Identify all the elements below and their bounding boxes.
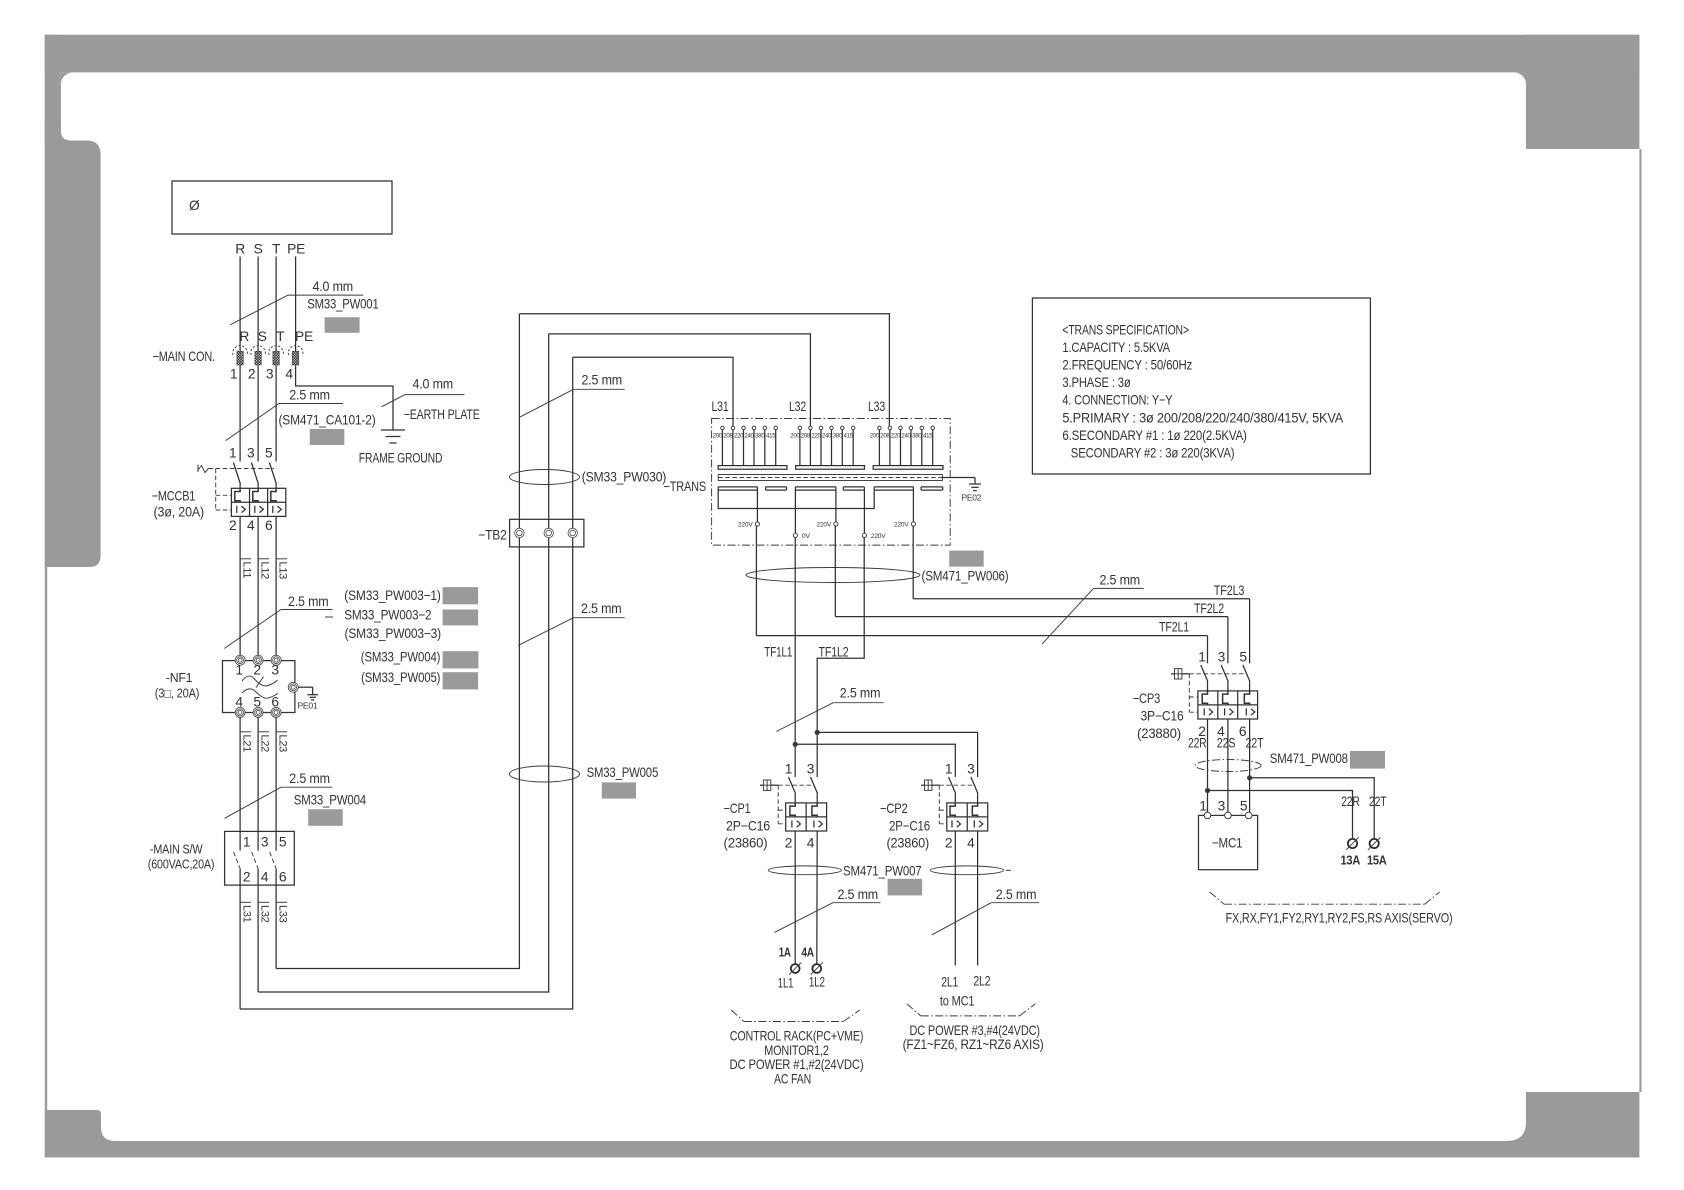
svg-text:1: 1 <box>1199 799 1206 814</box>
svg-text:3.PHASE : 3ø: 3.PHASE : 3ø <box>1062 375 1131 390</box>
svg-text:(SM471_PW006): (SM471_PW006) <box>922 569 1009 584</box>
svg-text:1A: 1A <box>779 946 791 960</box>
redaction SM471_CA101-2 <box>310 429 345 445</box>
secondary tap 220V no2 <box>817 490 839 528</box>
svg-text:5: 5 <box>279 834 287 849</box>
terminal 1L2 <box>809 962 825 989</box>
node PE <box>287 242 305 257</box>
svg-text:1L1: 1L1 <box>778 976 794 991</box>
svg-text:3: 3 <box>967 762 975 777</box>
svg-text:1: 1 <box>229 446 236 461</box>
svg-text:TF1L1: TF1L1 <box>764 645 792 660</box>
svg-text:<TRANS SPECIFICATION>: <TRANS SPECIFICATION> <box>1062 323 1189 338</box>
node L32 tap <box>549 334 811 426</box>
label 22T right <box>1369 794 1387 809</box>
svg-text:4: 4 <box>285 367 293 382</box>
wire CP3 out 1 <box>1207 719 1209 812</box>
svg-text:220V: 220V <box>738 521 753 528</box>
secondary winding 3b <box>921 487 943 490</box>
wire S to MCCB1 <box>257 366 259 462</box>
cable marker CP2 out <box>930 866 1011 875</box>
svg-text:(23860): (23860) <box>724 836 768 851</box>
wire L11 <box>240 517 252 660</box>
label to MC1 <box>940 994 975 1009</box>
svg-text:(SM33_PW005): (SM33_PW005) <box>361 670 440 685</box>
svg-text:220: 220 <box>891 433 901 440</box>
label SM33_PW004 <box>294 793 367 808</box>
trans specification box <box>1032 298 1370 474</box>
svg-text:−MC1: −MC1 <box>1212 836 1243 851</box>
wire CP3 out 2 <box>1227 719 1229 812</box>
svg-text:(SM33_PW030): (SM33_PW030) <box>582 470 667 485</box>
cable marker SM33_PW005 <box>510 765 659 782</box>
svg-text:−MCCB1: −MCCB1 <box>152 489 196 504</box>
redaction PW003-1 <box>443 587 479 604</box>
svg-text:1: 1 <box>1198 649 1205 664</box>
wire CP3 out 3 <box>1249 719 1251 812</box>
svg-text:CONTROL RACK(PC+VME): CONTROL RACK(PC+VME) <box>730 1029 864 1044</box>
svg-text:6: 6 <box>279 869 287 884</box>
label 22R right <box>1341 794 1360 809</box>
bracket control rack <box>731 1010 860 1022</box>
svg-text:220V: 220V <box>871 533 886 540</box>
labels SM33_PW003 group <box>325 588 441 685</box>
wire TF2L3 vertical <box>912 526 914 599</box>
svg-text:L23: L23 <box>276 735 288 753</box>
secondary winding 2a <box>795 487 836 490</box>
svg-text:4.0 mm: 4.0 mm <box>413 377 454 392</box>
svg-text:(SM33_PW003−3): (SM33_PW003−3) <box>345 626 442 641</box>
svg-text:3: 3 <box>1218 649 1226 664</box>
leader 2.5 mm CP1 out <box>774 887 880 932</box>
text servo axis <box>1226 911 1453 926</box>
svg-text:−TRANS: −TRANS <box>664 479 707 494</box>
svg-text:L12: L12 <box>258 562 270 580</box>
svg-text:TF2L3: TF2L3 <box>1214 583 1245 598</box>
svg-text:1: 1 <box>243 834 250 849</box>
svg-text:FX,RX,FY1,FY2,RY1,RY2,FS,RS AX: FX,RX,FY1,FY2,RY1,RY2,FS,RS AXIS(SERVO) <box>1226 911 1453 926</box>
breaker -MCCB1 <box>152 446 286 534</box>
svg-text:3: 3 <box>261 834 269 849</box>
primary winding 2 <box>790 426 864 469</box>
wire TF2L2 vertical <box>834 526 836 617</box>
svg-text:4. CONNECTION: Y−Y: 4. CONNECTION: Y−Y <box>1062 393 1172 408</box>
svg-text:4: 4 <box>261 869 269 884</box>
svg-text:to MC1: to MC1 <box>940 994 975 1009</box>
wire L31 <box>240 885 252 1009</box>
leader 2.5 mm below TB2 <box>518 601 625 645</box>
net TF2L2 <box>835 601 1228 617</box>
svg-text:6.SECONDARY #1 : 1ø 220(2.5KVA: 6.SECONDARY #1 : 1ø 220(2.5KVA) <box>1062 428 1246 443</box>
svg-text:22T: 22T <box>1369 794 1387 809</box>
wire CP1 out 1 <box>794 831 796 964</box>
svg-text:2.5 mm: 2.5 mm <box>838 887 879 902</box>
svg-text:1: 1 <box>230 367 237 382</box>
node R <box>235 242 245 257</box>
svg-text:−CP1: −CP1 <box>724 801 751 816</box>
svg-text:AC FAN: AC FAN <box>774 1071 811 1086</box>
svg-text:415: 415 <box>766 433 776 440</box>
svg-text:SM33_PW003−2: SM33_PW003−2 <box>344 607 431 622</box>
svg-text:−CP3: −CP3 <box>1133 691 1161 706</box>
junction 22R branch <box>1205 788 1353 839</box>
svg-text:1: 1 <box>945 762 952 777</box>
svg-text:(SM33_PW003−1): (SM33_PW003−1) <box>344 588 440 603</box>
svg-text:SM33_PW001: SM33_PW001 <box>307 297 378 312</box>
svg-text:TF1L2: TF1L2 <box>819 645 849 660</box>
wire CP2 out 2 <box>977 831 979 965</box>
secondary tap 220V no1 <box>738 490 760 528</box>
svg-text:(FZ1~FZ6, RZ1~RZ6 AXIS): (FZ1~FZ6, RZ1~RZ6 AXIS) <box>903 1037 1044 1052</box>
svg-text:0V: 0V <box>802 533 811 540</box>
redaction PW005 <box>443 672 479 689</box>
secondary tap 220V no3 <box>862 490 886 540</box>
svg-text:240: 240 <box>901 433 911 440</box>
svg-text:6: 6 <box>265 518 273 533</box>
wire R to MCCB1 <box>239 366 241 462</box>
terminal PE01 <box>288 682 318 710</box>
svg-text:3P−C16: 3P−C16 <box>1141 709 1184 724</box>
wire CP1 out 2 <box>816 831 818 964</box>
svg-text:208: 208 <box>723 433 733 440</box>
wire run L31 to riser <box>240 357 573 1009</box>
leader 2.5 mm TF2 lines <box>1042 573 1144 644</box>
bracket dc power 34 <box>907 1004 1036 1016</box>
svg-text:4.0 mm: 4.0 mm <box>313 279 354 294</box>
svg-text:2.5 mm: 2.5 mm <box>840 686 881 701</box>
svg-text:5: 5 <box>1240 799 1248 814</box>
svg-text:(3ø, 20A): (3ø, 20A) <box>154 505 205 520</box>
svg-text:2L2: 2L2 <box>973 974 990 989</box>
terminal block -TB2 <box>478 519 584 547</box>
secondary link wire <box>718 490 874 508</box>
wire TF2L2 to CP3 <box>1227 617 1229 664</box>
label 22S <box>1217 736 1236 751</box>
svg-text:4: 4 <box>967 836 975 851</box>
connector -MAIN CON. <box>153 329 314 382</box>
svg-text:(23860): (23860) <box>887 836 930 851</box>
wire R drop <box>239 257 241 347</box>
secondary winding 1b <box>766 487 787 490</box>
svg-text:R: R <box>239 329 249 344</box>
terminal 13A <box>1341 837 1361 867</box>
breaker -CP1 <box>724 762 827 851</box>
svg-text:2.5 mm: 2.5 mm <box>581 601 622 616</box>
wire L23 <box>276 717 288 831</box>
svg-text:L32: L32 <box>789 399 806 414</box>
svg-text:SECONDARY #2 : 3ø 220(3KVA): SECONDARY #2 : 3ø 220(3KVA) <box>1071 445 1235 460</box>
wire T to MCCB1 <box>275 366 277 462</box>
svg-text:380: 380 <box>755 433 765 440</box>
leader 2.5 mm CP2 out <box>932 887 1039 935</box>
svg-text:T: T <box>276 329 285 344</box>
svg-text:22R: 22R <box>1188 736 1207 751</box>
svg-text:2.5 mm: 2.5 mm <box>289 388 330 403</box>
redaction SM471_PW008 <box>1350 751 1385 769</box>
ground FRAME GROUND <box>359 430 443 466</box>
text control rack <box>730 1029 864 1087</box>
title box <box>172 181 392 234</box>
junction TF1L2 branch <box>815 730 978 777</box>
svg-text:PE01: PE01 <box>298 701 318 711</box>
svg-text:(SM471_CA101-2): (SM471_CA101-2) <box>279 413 376 428</box>
secondary winding 1a <box>718 487 757 490</box>
svg-text:22S: 22S <box>1217 736 1236 751</box>
label 2L2 <box>973 974 990 989</box>
svg-text:R: R <box>235 242 245 257</box>
svg-text:2: 2 <box>945 836 952 851</box>
svg-text:5: 5 <box>265 446 273 461</box>
wire L13 <box>276 517 288 660</box>
svg-text:Ø: Ø <box>189 198 200 213</box>
wire T drop <box>275 257 277 347</box>
leader 2.5 mm riser top <box>519 373 624 418</box>
svg-text:SM33_PW004: SM33_PW004 <box>294 793 367 808</box>
svg-text:(600VAC,20A): (600VAC,20A) <box>148 857 215 872</box>
label 22T <box>1246 736 1265 751</box>
svg-text:3: 3 <box>247 446 255 461</box>
svg-text:MONITOR1,2: MONITOR1,2 <box>764 1043 829 1058</box>
label 4A <box>801 946 814 960</box>
svg-text:220: 220 <box>811 433 821 440</box>
net TF1L2 label <box>819 645 849 660</box>
cable marker SM471_PW008 <box>1195 751 1348 772</box>
wire PE to earth <box>296 366 393 431</box>
svg-text:L22: L22 <box>258 735 270 753</box>
wire L33 <box>276 885 288 968</box>
svg-text:240: 240 <box>822 433 832 440</box>
contactor -MC1 <box>1199 799 1258 870</box>
net TF2L1 <box>756 620 1207 636</box>
node L33 tap <box>519 314 889 426</box>
svg-text:3: 3 <box>271 663 279 678</box>
svg-text:L11: L11 <box>240 562 252 579</box>
cable marker SM471_PW007 <box>768 864 921 879</box>
leader 2.5 mm NF1 <box>224 594 332 649</box>
node T <box>272 242 281 257</box>
transformer -TRANS dashed enclosure <box>664 419 951 546</box>
junction 22T branch <box>1247 775 1374 839</box>
label 22R <box>1188 736 1207 751</box>
switch -MAIN S/W <box>148 831 294 885</box>
svg-text:S: S <box>254 242 263 257</box>
junction TF1L1 branch <box>793 742 956 777</box>
svg-text:4: 4 <box>247 518 255 533</box>
wire L21 <box>240 717 252 831</box>
label -EARTH PLATE <box>404 407 480 422</box>
node L31 tap <box>573 357 733 426</box>
wire TF2L1 vertical <box>755 526 757 636</box>
svg-text:4: 4 <box>235 695 243 710</box>
label SM471_CA101-2 <box>279 413 376 428</box>
svg-text:2P−C16: 2P−C16 <box>726 819 770 834</box>
wire PE drop <box>295 257 297 347</box>
svg-text:240: 240 <box>744 433 754 440</box>
terminal 1L1 <box>778 962 802 990</box>
svg-text:FRAME GROUND: FRAME GROUND <box>359 451 443 466</box>
wire TF1L2 vertical <box>817 538 864 778</box>
svg-text:415: 415 <box>844 433 854 440</box>
svg-text:L33: L33 <box>276 905 288 923</box>
svg-text:(SM33_PW004): (SM33_PW004) <box>361 650 441 665</box>
leader 2.5 mm main cable <box>226 388 343 441</box>
svg-text:3: 3 <box>1218 799 1226 814</box>
svg-text:220: 220 <box>734 433 744 440</box>
svg-text:2: 2 <box>229 518 236 533</box>
svg-text:1L2: 1L2 <box>809 975 825 990</box>
net TF2L3 <box>913 583 1249 599</box>
redaction SM33_PW005 <box>602 782 636 798</box>
svg-text:(3□, 20A): (3□, 20A) <box>155 686 200 701</box>
leader 2.5 mm CP feeders <box>776 686 883 732</box>
svg-text:L32: L32 <box>258 905 270 923</box>
svg-text:SM471_PW008: SM471_PW008 <box>1270 751 1348 766</box>
svg-text:4: 4 <box>807 836 815 851</box>
svg-text:1.CAPACITY : 5.5KVA: 1.CAPACITY : 5.5KVA <box>1062 340 1170 355</box>
svg-text:-MAIN S/W: -MAIN S/W <box>150 842 203 857</box>
redaction SM33_PW004 2 <box>308 809 343 826</box>
cable marker SM471_PW006 <box>746 568 1009 584</box>
wire S drop <box>257 257 259 347</box>
svg-text:1: 1 <box>785 762 792 777</box>
svg-text:22R: 22R <box>1341 794 1360 809</box>
breaker -CP2 <box>880 762 988 851</box>
text dc power 34 <box>903 1023 1044 1052</box>
wire TF2L3 to CP3 <box>1249 599 1251 664</box>
svg-text:200: 200 <box>870 433 880 440</box>
label 2L1 <box>941 975 958 990</box>
primary winding 1 <box>713 426 787 469</box>
svg-text:2: 2 <box>243 869 250 884</box>
secondary winding 3a <box>874 487 913 490</box>
svg-text:PE: PE <box>295 329 313 344</box>
secondary winding 2b <box>843 487 864 490</box>
leader 4.0 mm earth <box>382 377 465 407</box>
redaction SM33_PW001 <box>325 317 360 333</box>
svg-text:5: 5 <box>253 695 261 710</box>
wire TF1L1 vertical <box>794 538 796 778</box>
svg-text:2P−C16: 2P−C16 <box>889 819 930 834</box>
svg-text:−MAIN CON.: −MAIN CON. <box>153 349 216 364</box>
svg-text:(23880): (23880) <box>1137 726 1181 741</box>
filter -NF1 <box>155 655 295 717</box>
secondary tap 0V <box>793 490 810 540</box>
net TF1L1 label <box>764 645 792 660</box>
wire L32 <box>258 885 270 992</box>
svg-text:220V: 220V <box>894 521 909 528</box>
leader 4.0 mm incoming <box>230 279 363 325</box>
svg-text:L21: L21 <box>240 735 252 753</box>
svg-text:-NF1: -NF1 <box>166 670 193 685</box>
svg-text:2.FREQUENCY : 50/60Hz: 2.FREQUENCY : 50/60Hz <box>1062 358 1192 373</box>
svg-text:1: 1 <box>235 663 242 678</box>
svg-text:2.5 mm: 2.5 mm <box>288 594 329 609</box>
svg-text:SM471_PW007: SM471_PW007 <box>843 864 922 879</box>
svg-text:2: 2 <box>248 367 255 382</box>
bracket servo <box>1210 892 1440 904</box>
label 1A <box>779 946 791 960</box>
terminal 15A <box>1367 837 1387 867</box>
svg-text:L31: L31 <box>712 399 729 414</box>
svg-text:T: T <box>272 242 281 257</box>
svg-text:−CP2: −CP2 <box>880 801 908 816</box>
svg-text:4A: 4A <box>801 946 814 960</box>
redaction SM471_PW007 <box>888 879 923 896</box>
transformer core <box>718 475 942 481</box>
primary winding 3 <box>870 426 943 469</box>
svg-text:22T: 22T <box>1246 736 1265 751</box>
svg-text:380: 380 <box>912 433 922 440</box>
svg-text:DC POWER #3,#4(24VDC): DC POWER #3,#4(24VDC) <box>909 1023 1040 1038</box>
wire L12 <box>258 517 270 660</box>
svg-text:5.PRIMARY : 3ø 200/208/220/240: 5.PRIMARY : 3ø 200/208/220/240/380/415V,… <box>1062 410 1344 425</box>
svg-text:SM33_PW005: SM33_PW005 <box>587 765 659 780</box>
svg-text:2.5 mm: 2.5 mm <box>582 373 623 388</box>
wire L22 <box>258 717 270 831</box>
svg-text:2.5 mm: 2.5 mm <box>1100 573 1141 588</box>
redaction PW004 <box>443 651 479 668</box>
svg-text:L33: L33 <box>868 399 885 414</box>
svg-text:2L1: 2L1 <box>941 975 958 990</box>
svg-text:PE: PE <box>287 242 305 257</box>
svg-text:L13: L13 <box>276 562 288 580</box>
svg-text:TF2L1: TF2L1 <box>1159 620 1189 635</box>
svg-text:200: 200 <box>790 433 800 440</box>
svg-text:2.5 mm: 2.5 mm <box>996 887 1037 902</box>
node S <box>254 242 263 257</box>
wire TF2L1 to CP3 <box>1207 636 1209 664</box>
cable marker SM33_PW030 <box>510 470 667 485</box>
svg-text:200: 200 <box>713 433 723 440</box>
svg-text:L31: L31 <box>240 905 252 923</box>
wire run L33 to riser <box>276 314 519 969</box>
svg-text:−TB2: −TB2 <box>478 528 507 543</box>
svg-text:2.5 mm: 2.5 mm <box>289 771 330 786</box>
svg-text:415: 415 <box>923 433 933 440</box>
leader 2.5 mm main switch <box>225 771 333 818</box>
svg-text:TF2L2: TF2L2 <box>1194 601 1224 616</box>
svg-text:5: 5 <box>1239 649 1247 664</box>
svg-text:220V: 220V <box>817 521 832 528</box>
redaction PW003-2 <box>443 610 479 626</box>
svg-text:PE02: PE02 <box>962 493 982 503</box>
svg-text:13A: 13A <box>1341 854 1361 868</box>
breaker -CP3 <box>1133 649 1258 741</box>
svg-text:DC POWER #1,#2(24VDC): DC POWER #1,#2(24VDC) <box>730 1057 864 1072</box>
svg-text:3: 3 <box>807 762 815 777</box>
svg-text:S: S <box>258 329 267 344</box>
label SM33_PW001 <box>307 297 378 312</box>
wire CP2 out 1 <box>954 831 956 965</box>
redaction SM471_PW006 <box>949 551 984 567</box>
svg-text:380: 380 <box>833 433 843 440</box>
svg-text:−EARTH PLATE: −EARTH PLATE <box>404 407 480 422</box>
svg-text:2: 2 <box>253 663 260 678</box>
svg-text:208: 208 <box>880 433 890 440</box>
svg-text:2: 2 <box>785 836 792 851</box>
svg-text:15A: 15A <box>1367 854 1387 868</box>
svg-text:3: 3 <box>266 367 274 382</box>
svg-text:208: 208 <box>801 433 811 440</box>
wire run L32 to riser <box>258 334 549 992</box>
ground PE02 <box>942 478 981 503</box>
secondary tap 220V no4 <box>894 490 916 528</box>
